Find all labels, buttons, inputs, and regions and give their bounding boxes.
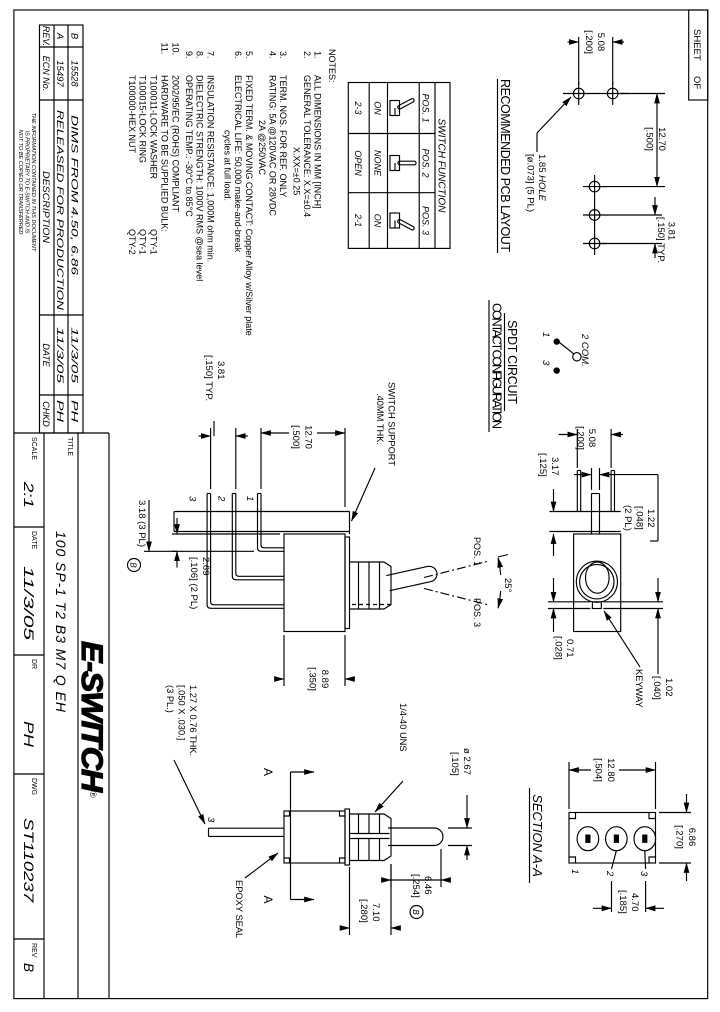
svg-text:ON: ON (373, 101, 383, 115)
svg-text:IS PROPRIETARY TO E-SWITCH AND: IS PROPRIETARY TO E-SWITCH AND IS (24, 131, 30, 234)
svg-text:3.17: 3.17 (549, 457, 560, 476)
dim 6.46 (440, 849, 442, 887)
svg-text:KEYWAY: KEYWAY (634, 669, 644, 708)
svg-text:FIXED TERM. & MOVING CONTACT:: FIXED TERM. & MOVING CONTACT: Copper All… (244, 75, 254, 336)
svg-text:[.200]: [.200] (575, 426, 586, 450)
svg-text:SHEET: SHEET (691, 29, 702, 61)
svg-text:0.71: 0.71 (564, 639, 575, 658)
svg-text:INSULATION RESISTANCE: 1,000M: INSULATION RESISTANCE: 1,000M ohm min. (206, 75, 216, 262)
svg-text:SECTION A-A: SECTION A-A (530, 794, 545, 877)
svg-text:[.028]: [.028] (553, 636, 564, 660)
svg-text:CONTACT CONFIGURATION: CONTACT CONFIGURATION (490, 303, 504, 429)
svg-text:ST110237: ST110237 (21, 818, 36, 903)
dim 4.70 (645, 881, 647, 912)
svg-text:DESCRIPTION: DESCRIPTION (41, 171, 51, 244)
svg-text:ELECTRICAL LIFE: 50,000 make-a: ELECTRICAL LIFE: 50,000 make-and-break (233, 75, 243, 253)
svg-text:OPEN: OPEN (353, 150, 363, 176)
dim 12.70 main (344, 428, 346, 507)
svg-text:[.504]: [.504] (593, 758, 604, 782)
svg-text:OF: OF (691, 76, 702, 89)
svg-text:A: A (54, 32, 65, 39)
svg-text:8.89: 8.89 (319, 670, 330, 689)
pcb support hole upper (607, 88, 618, 99)
aa side view body (284, 811, 345, 863)
dim 3.18 (144, 550, 177, 552)
svg-text:6.: 6. (233, 51, 243, 59)
svg-text:2-1: 2-1 (353, 213, 363, 227)
svg-text:[.270]: [.270] (674, 825, 685, 849)
svg-text:[.280]: [.280] (358, 899, 369, 923)
svg-text:3: 3 (540, 360, 551, 366)
svg-text:2 COM.: 2 COM. (579, 333, 590, 367)
svg-text:DIMS FROM 4.50, 6.86: DIMS FROM 4.50, 6.86 (69, 115, 80, 276)
svg-text:3.18 (3 PL): 3.18 (3 PL) (136, 500, 147, 547)
dim 8.89 (344, 635, 346, 686)
svg-text:[.350]: [.350] (307, 667, 318, 691)
svg-text:4.70: 4.70 (629, 893, 640, 912)
svg-text:THE INFORMATION CONTAINED IN T: THE INFORMATION CONTAINED IN THIS DOCUME… (30, 113, 36, 252)
section terminal oval 3 (634, 827, 656, 851)
svg-text:ECN No.: ECN No. (41, 56, 51, 92)
svg-text:ALL DIMENSIONS IN MM [INCH]: ALL DIMENSIONS IN MM [INCH] (313, 75, 323, 209)
svg-text:[.500]: [.500] (290, 425, 301, 449)
svg-text:HARDWARE TO BE SUPPLIED BULK:: HARDWARE TO BE SUPPLIED BULK: (160, 75, 170, 232)
svg-text:2A @250VAC: 2A @250VAC (257, 120, 267, 176)
pcb terminal hole 2 (589, 210, 600, 221)
svg-text:POS. 1: POS. 1 (472, 537, 482, 566)
svg-text:RATING: 5A @120VAC OR 28VDC: RATING: 5A @120VAC OR 28VDC (268, 75, 278, 216)
svg-text:1.85 HOLE: 1.85 HOLE (536, 154, 547, 202)
svg-text:15528: 15528 (69, 60, 80, 87)
top view bushing inner circle (580, 565, 614, 599)
svg-text:.40MM THK.: .40MM THK. (375, 393, 385, 445)
svg-text:SPDT CIRCUIT: SPDT CIRCUIT (505, 320, 519, 404)
svg-text:OPERATING TEMP.: -30°C to 85°C: OPERATING TEMP.: -30°C to 85°C (184, 75, 194, 217)
pcb terminal hole 1 (589, 181, 600, 192)
sheet box (689, 10, 708, 100)
svg-text:DIELECTRIC STRENGTH: 1000V RM: DIELECTRIC STRENGTH: 1000V RMS @sea leve… (195, 75, 205, 281)
svg-text:POS. 1: POS. 1 (421, 93, 431, 122)
main view body (284, 534, 345, 632)
svg-text:B: B (129, 562, 138, 568)
svg-text:QTY-1: QTY-1 (149, 229, 159, 255)
svg-text:11/3/05: 11/3/05 (54, 327, 65, 384)
svg-text:QTY-2: QTY-2 (127, 229, 137, 255)
top view support leg upper (614, 471, 616, 512)
flag b main (128, 559, 141, 572)
svg-text:2.: 2. (302, 51, 312, 59)
svg-text:[.105]: [.105] (449, 752, 460, 776)
svg-text:PH: PH (54, 400, 65, 422)
svg-text:(3 PL.): (3 PL.) (165, 685, 175, 713)
svg-text:B: B (21, 963, 36, 972)
rev row B (69, 33, 80, 422)
main view support plate (174, 512, 350, 535)
rev header row (41, 26, 51, 427)
svg-text:RELEASED FOR PRODUCTION: RELEASED FOR PRODUCTION (54, 110, 65, 310)
svg-text:QTY-1: QTY-1 (138, 229, 148, 255)
section terminal oval 2 (606, 827, 628, 851)
svg-text:7.10: 7.10 (370, 903, 381, 922)
terminal 3 (211, 494, 284, 605)
svg-text:5.: 5. (244, 51, 254, 59)
svg-text:3.81: 3.81 (215, 361, 226, 380)
svg-text:12.70: 12.70 (656, 127, 667, 151)
dim 2.69 (172, 533, 280, 535)
svg-text:SCALE: SCALE (30, 437, 37, 460)
svg-text:1.: 1. (313, 51, 323, 59)
section cut line (290, 772, 292, 900)
terminal 2 (236, 494, 284, 577)
svg-text:CHKD: CHKD (41, 401, 51, 427)
pcb terminal hole 3 (589, 238, 600, 249)
dim 1.02 keyway (603, 601, 663, 603)
toggle icon pos1 (390, 98, 415, 116)
svg-text:1: 1 (569, 869, 580, 874)
svg-text:T100015-LOCK RING: T100015-LOCK RING (138, 75, 148, 163)
svg-text:DATE: DATE (41, 343, 51, 367)
pcb hole callout leader (536, 133, 538, 152)
svg-text:PH: PH (21, 721, 36, 747)
pos1 centerline (424, 562, 487, 578)
top view lever (586, 562, 610, 593)
top view support leg lower (580, 471, 582, 512)
svg-text:2002/95/EC (ROHS) COMPLIANT: 2002/95/EC (ROHS) COMPLIANT (171, 75, 181, 213)
revision table (40, 25, 84, 433)
svg-text:SWITCH FUNCTION: SWITCH FUNCTION (436, 119, 447, 214)
svg-text:B: B (69, 33, 80, 40)
proprietary note (17, 113, 36, 252)
aa terminal 3 (209, 828, 285, 836)
svg-text:2: 2 (604, 870, 615, 877)
pcb dim 3.81 typ (606, 214, 662, 216)
dim 5.08 top view (610, 429, 612, 468)
svg-text:DR: DR (30, 659, 37, 669)
svg-text:1.22: 1.22 (645, 509, 656, 528)
section terminal oval 1 (577, 827, 599, 851)
svg-text:1.02: 1.02 (663, 678, 674, 697)
svg-text:11.: 11. (160, 43, 170, 55)
svg-text:9.: 9. (184, 51, 194, 59)
svg-text:1/4-40 UNS: 1/4-40 UNS (398, 703, 408, 752)
pos3 centerline (424, 589, 487, 605)
svg-text:B: B (411, 909, 420, 915)
spdt terminal 3 dot (554, 367, 560, 373)
svg-text:cycles at full load.: cycles at full load. (223, 130, 233, 201)
svg-text:[.040]: [.040] (651, 676, 662, 700)
svg-text:[.150] TYP.: [.150] TYP. (655, 217, 666, 263)
dim 3.17 (553, 489, 555, 512)
pcb support hole lower (573, 88, 584, 99)
svg-text:3: 3 (187, 496, 198, 502)
section arrow left (291, 771, 315, 773)
terminal 1 (261, 494, 284, 548)
svg-text:2.69: 2.69 (200, 557, 211, 576)
dim 3.81 typ main (235, 428, 237, 489)
svg-text:11/3/05: 11/3/05 (69, 327, 80, 384)
svg-text:3.: 3. (278, 51, 288, 59)
svg-text:REV: REV (30, 943, 37, 958)
svg-text:[.185]: [.185] (617, 890, 628, 914)
rev row A (54, 32, 65, 422)
svg-text:8.: 8. (195, 51, 205, 59)
svg-text:[.200]: [.200] (583, 30, 594, 54)
svg-text:3.81: 3.81 (666, 222, 677, 241)
top view terminal prong (599, 494, 601, 535)
aa flange (345, 809, 350, 865)
notes block (127, 43, 337, 336)
svg-text:POS. 3: POS. 3 (421, 206, 431, 235)
svg-text:X.XX=±0.25: X.XX=±0.25 (292, 147, 302, 195)
svg-text:A: A (261, 768, 275, 776)
spdt common pole circle (573, 353, 581, 361)
svg-text:3: 3 (638, 871, 649, 877)
dim 6.86 (659, 812, 691, 814)
toggle lever (386, 565, 438, 591)
dim 1.22 (599, 468, 601, 490)
svg-text:5.08: 5.08 (595, 33, 606, 52)
dim 0.71 keyway (548, 601, 590, 603)
aa bushing (350, 814, 392, 861)
top view support plate edges (550, 511, 621, 513)
svg-text:1: 1 (244, 496, 255, 501)
svg-text:[.254]: [.254] (410, 874, 421, 898)
svg-text:[.106] (2 PL): [.106] (2 PL) (188, 557, 199, 609)
spdt lever wire (560, 343, 574, 354)
svg-text:EPOXY SEAL: EPOXY SEAL (234, 880, 244, 938)
svg-text:15497: 15497 (54, 60, 65, 87)
section arrow right (291, 899, 315, 901)
svg-text:4.: 4. (268, 51, 278, 59)
pcb dim 5.08 vertical (612, 37, 614, 85)
throw angle arc (498, 558, 501, 575)
svg-text:NONE: NONE (373, 150, 383, 177)
svg-text:PH: PH (69, 400, 80, 422)
aa lever (388, 828, 443, 846)
svg-text:1.27 X 0.76 THK.: 1.27 X 0.76 THK. (188, 685, 198, 756)
pcb dim 12.70 horizontal (621, 93, 665, 95)
dim 2.67 lever (448, 827, 472, 829)
svg-text:TERM. NOS. FOR REF. ONLY: TERM. NOS. FOR REF. ONLY (278, 75, 288, 197)
section terminal leaders (644, 851, 647, 869)
svg-text:E-SWITCH: E-SWITCH (75, 641, 108, 793)
svg-text:POS. 2: POS. 2 (421, 148, 431, 177)
svg-text:7.: 7. (206, 51, 216, 59)
keyway notch (592, 602, 601, 609)
svg-text:25°: 25° (502, 578, 513, 593)
toggle icon pos2 (390, 156, 416, 172)
svg-text:REV.: REV. (41, 26, 51, 46)
spdt terminal 1 dot (554, 338, 560, 344)
svg-text:3: 3 (205, 817, 216, 823)
svg-text:®: ® (88, 791, 98, 798)
section corner notches (649, 813, 656, 819)
svg-text:A: A (261, 895, 275, 903)
svg-text:[.048]: [.048] (634, 506, 645, 530)
svg-text:(2 PL): (2 PL) (622, 505, 633, 531)
svg-text:10.: 10. (171, 43, 181, 56)
svg-text:12.70: 12.70 (303, 425, 314, 449)
svg-text:1: 1 (540, 332, 551, 337)
svg-text:2: 2 (216, 495, 227, 502)
svg-text:5.08: 5.08 (586, 429, 597, 448)
top view bushing circle (576, 561, 617, 602)
svg-text:RECOMMENDED PCB LAYOUT: RECOMMENDED PCB LAYOUT (498, 79, 512, 252)
title block frame (14, 433, 109, 999)
svg-text:[ø.073] (5 PL): [ø.073] (5 PL) (525, 154, 536, 212)
pcb holes centerline (594, 175, 596, 255)
svg-text:TITLE: TITLE (66, 437, 73, 456)
bushing threaded (350, 562, 392, 609)
section aa rect (569, 813, 656, 864)
svg-text:[.125]: [.125] (537, 453, 548, 477)
svg-text:SWITCH SUPPORT: SWITCH SUPPORT (387, 382, 397, 466)
top view body (574, 534, 621, 632)
svg-text:[.050 X .030.]: [.050 X .030.] (177, 685, 187, 740)
svg-text:NOTES:: NOTES: (327, 49, 337, 83)
svg-text:2-3: 2-3 (353, 100, 363, 114)
bushing flange (345, 537, 350, 629)
svg-text:NOT TO BE COPIED OR TRANSFERRE: NOT TO BE COPIED OR TRANSFERRED (17, 130, 23, 235)
function table frame (348, 83, 450, 249)
dim 7.10 (390, 864, 392, 935)
aa body corner notches (340, 811, 346, 816)
svg-text:100 SP-1 T2 B3 M7 Q EH: 100 SP-1 T2 B3 M7 Q EH (53, 531, 69, 713)
svg-text:GENERAL TOLERANCE: X.X=±0.4: GENERAL TOLERANCE: X.X=±0.4 (302, 75, 312, 217)
svg-text:[.500]: [.500] (644, 127, 655, 151)
svg-text:6.86: 6.86 (686, 828, 697, 847)
svg-text:POS. 3: POS. 3 (472, 598, 482, 627)
svg-text:ON: ON (373, 214, 383, 228)
svg-text:2:1: 2:1 (21, 481, 36, 508)
svg-text:6.46: 6.46 (422, 876, 433, 895)
svg-text:[.150] TYP.: [.150] TYP. (203, 355, 214, 401)
svg-text:11/3/05: 11/3/05 (21, 566, 36, 641)
svg-text:T100011-LOCK WASHER: T100011-LOCK WASHER (149, 75, 159, 180)
svg-text:DATE: DATE (30, 531, 37, 549)
svg-text:DWG: DWG (30, 778, 37, 795)
svg-text:ø 2.67: ø 2.67 (461, 748, 472, 775)
svg-text:12.80: 12.80 (605, 758, 616, 782)
svg-text:T100000-HEX NUT: T100000-HEX NUT (127, 75, 137, 154)
dim 12.80 (655, 762, 657, 809)
toggle icon pos3 (390, 213, 415, 231)
